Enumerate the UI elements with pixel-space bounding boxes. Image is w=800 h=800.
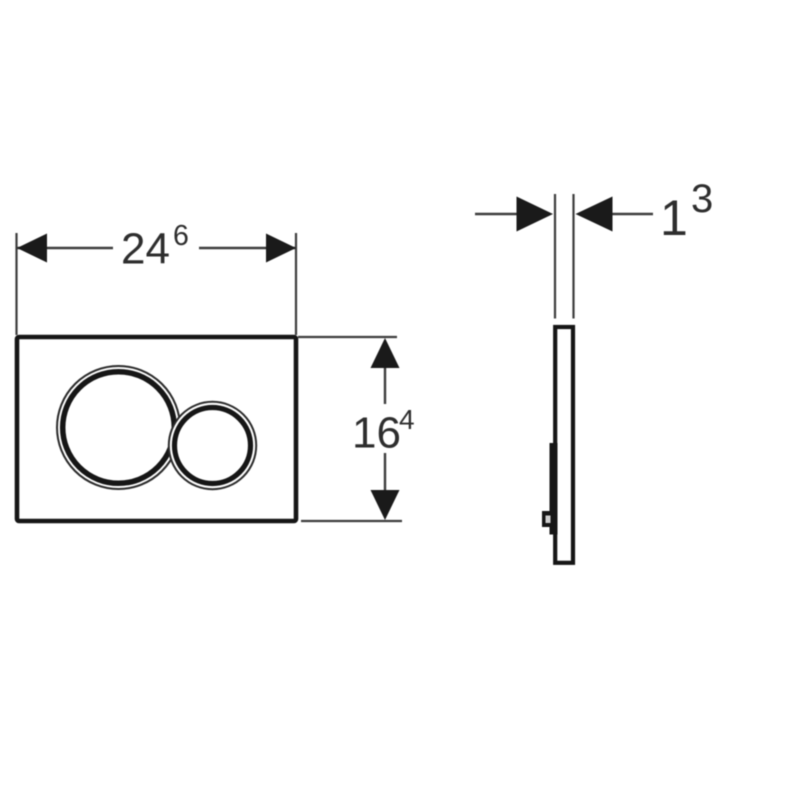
height dimension extension line top <box>298 336 397 338</box>
small button inner ring <box>175 408 251 484</box>
side view extension line right <box>572 194 574 319</box>
svg-text:16: 16 <box>352 409 401 458</box>
svg-text:4: 4 <box>399 404 415 435</box>
side view clip tab <box>542 511 556 527</box>
small button outer ring <box>169 402 256 489</box>
front view plate outline <box>17 337 296 521</box>
svg-text:24: 24 <box>121 225 170 274</box>
width arrow left <box>17 234 47 263</box>
small button mask disc <box>168 401 256 489</box>
side view clip tab hole <box>546 516 551 524</box>
svg-text:3: 3 <box>691 177 713 221</box>
width dimension extension line right <box>295 233 297 335</box>
big button inner ring <box>63 372 175 484</box>
svg-text:6: 6 <box>173 220 189 252</box>
height arrow up <box>371 338 400 368</box>
thickness dimension line left segment <box>475 213 518 215</box>
thickness dimension line right segment <box>613 213 654 215</box>
width dimension line right segment <box>199 247 296 249</box>
height dimension line upper segment <box>384 360 386 404</box>
width dimension line left segment <box>17 247 113 249</box>
side view rear bar <box>550 443 558 535</box>
height dimension line lower segment <box>384 453 386 495</box>
width dimension extension line left <box>15 233 17 335</box>
thickness arrow left <box>517 197 554 232</box>
height dimension extension line bottom <box>301 520 402 522</box>
side view extension line left <box>554 194 556 319</box>
height arrow down <box>371 490 400 520</box>
thickness arrow right <box>576 197 613 232</box>
width arrow right <box>266 234 296 263</box>
svg-text:1: 1 <box>660 190 688 246</box>
big button outer ring <box>57 366 180 489</box>
side view plate body <box>555 327 573 563</box>
